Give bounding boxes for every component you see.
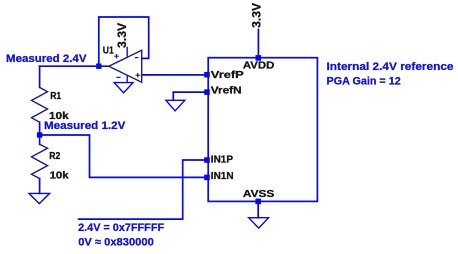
- svg-text:Measured 2.4V: Measured 2.4V: [6, 53, 87, 65]
- svg-text:3.3V: 3.3V: [251, 3, 264, 28]
- svg-text:3.3V: 3.3V: [116, 23, 129, 48]
- svg-text:IN1P: IN1P: [211, 154, 233, 165]
- svg-text:PGA Gain = 12: PGA Gain = 12: [327, 75, 401, 87]
- svg-text:R1: R1: [50, 91, 61, 102]
- svg-text:AVDD: AVDD: [243, 60, 275, 71]
- svg-text:IN1N: IN1N: [211, 171, 234, 182]
- svg-text:AVSS: AVSS: [243, 189, 274, 200]
- svg-text:VrefN: VrefN: [211, 86, 242, 97]
- svg-text:Internal 2.4V reference: Internal 2.4V reference: [327, 61, 454, 73]
- svg-text:U1: U1: [103, 45, 114, 56]
- svg-text:R2: R2: [49, 151, 60, 162]
- svg-text:0V ≈ 0x830000: 0V ≈ 0x830000: [78, 237, 154, 249]
- svg-text:2.4V = 0x7FFFFF: 2.4V = 0x7FFFFF: [78, 222, 164, 234]
- svg-text:10k: 10k: [50, 170, 69, 181]
- svg-text:VrefP: VrefP: [211, 70, 244, 81]
- svg-text:10k: 10k: [49, 111, 69, 122]
